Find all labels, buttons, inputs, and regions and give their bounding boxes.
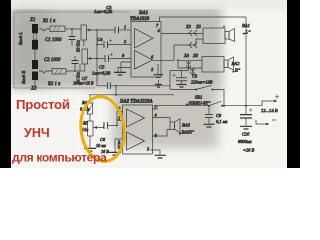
switch SB1 section b (208, 105, 210, 107)
frame border (14, 12, 130, 88)
svg-text:Вход L: Вход L (18, 32, 23, 45)
svg-text:C10: C10 (242, 132, 250, 137)
power rail (157, 105, 209, 107)
capacitor C6 (97, 122, 118, 129)
power terminal - (256, 120, 266, 124)
resistor R1 (50, 26, 81, 32)
svg-text:C9: C9 (216, 113, 222, 118)
capacitor C3 (90, 27, 131, 34)
svg-text:BA2: BA2 (232, 61, 241, 66)
wire input L (39, 29, 50, 31)
ground under R5 (84, 148, 96, 151)
svg-text:1: 1 (124, 25, 126, 30)
svg-text:R2 1 к: R2 1 к (47, 82, 61, 87)
svg-text:10 мк: 10 мк (96, 143, 106, 148)
svg-text:DA2 TDA1519A: DA2 TDA1519A (119, 100, 153, 105)
capacitor C2 (72, 56, 79, 72)
svg-text:Простой: Простой (16, 97, 70, 112)
svg-text:C5: C5 (99, 65, 105, 70)
capacitor C9 (204, 106, 215, 127)
connector X2 (32, 60, 38, 88)
supply drop wire (245, 17, 247, 114)
svg-text:R3 51к: R3 51к (76, 40, 81, 53)
wire node to R4 chain (115, 85, 117, 87)
wire input R (39, 71, 52, 73)
svg-text:X4: X4 (183, 53, 190, 58)
connector X1 (32, 24, 38, 60)
svg-text:12...14 В: 12...14 В (261, 108, 278, 113)
lower output wires to BA2 (177, 59, 179, 61)
svg-text:TDA1519: TDA1519 (130, 17, 150, 22)
svg-text:×16 В: ×16 В (243, 148, 254, 153)
capacitor C4 (97, 39, 131, 48)
svg-text:для компьютера: для компьютера (12, 151, 107, 165)
resistor R2 (52, 69, 80, 75)
svg-text:X1: X1 (29, 18, 36, 23)
potentiometer R5 51к (88, 121, 98, 148)
svg-text:220мк×16В: 220мк×16В (191, 80, 213, 85)
svg-text:УНЧ: УНЧ (24, 126, 50, 140)
svg-text:Вход R: Вход R (21, 71, 26, 84)
speaker BA3 (170, 119, 180, 133)
svg-text:X5: X5 (195, 24, 202, 29)
svg-text:C6: C6 (100, 137, 106, 142)
svg-text:C8: C8 (192, 74, 198, 79)
op-amp IC DA2 TDA1519A (123, 105, 153, 154)
svg-text:X2: X2 (30, 87, 37, 92)
svg-text:X6: X6 (192, 53, 199, 58)
connector X4 X6 chevrons (189, 42, 197, 48)
highlight circle (77, 93, 129, 163)
svg-text:X3: X3 (185, 24, 192, 29)
capacitor C7 (96, 29, 170, 89)
capacitor C5 (91, 53, 131, 62)
pin 2 wires to ground (121, 62, 131, 72)
switch SB1 section a (170, 85, 224, 105)
op-amp IC DA1 TDA1519 (131, 22, 161, 78)
capacitor C1 (69, 28, 76, 46)
wire C8 node (170, 70, 189, 72)
speaker box BA2 (202, 57, 234, 73)
capacitor C10 (240, 108, 253, 129)
ground under DA1 left (114, 72, 126, 75)
ground rail left (14, 87, 95, 89)
ground stub near C8 (157, 80, 159, 84)
capacitor C8 (173, 71, 188, 88)
svg-text:DA1: DA1 (138, 11, 148, 16)
svg-text:C1 1000: C1 1000 (45, 38, 62, 43)
svg-text:1: 1 (118, 116, 120, 121)
connector X7 X8 vertical wires with chevrons (188, 60, 190, 70)
power terminal + (262, 101, 274, 106)
svg-text:BA3: BA3 (182, 123, 191, 128)
svg-text:6800мк: 6800мк (238, 139, 253, 144)
svg-text:C2 1000: C2 1000 (44, 58, 61, 63)
svg-text:SB1: SB1 (195, 95, 202, 100)
potentiometer R3 (volume L) (81, 25, 90, 46)
speaker box BA1 (203, 26, 235, 44)
potentiometer R4 (volume R) (80, 49, 91, 71)
svg-text:C4: C4 (97, 37, 103, 42)
svg-text:10 мк×16 В: 10 мк×16 В (73, 81, 94, 86)
svg-text:R1 1 к: R1 1 к (42, 19, 56, 24)
trimmer R4 (87, 102, 94, 121)
